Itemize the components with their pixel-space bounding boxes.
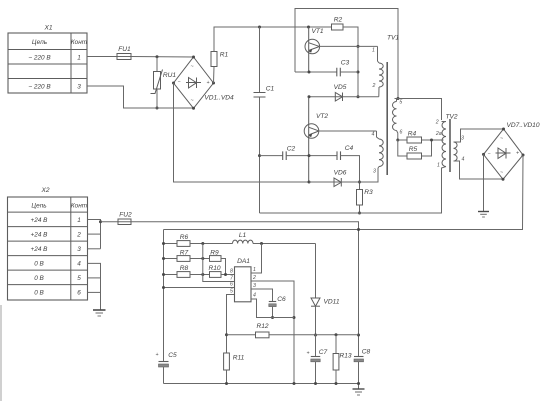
svg-text:2: 2: [76, 232, 81, 239]
svg-text:VD6: VD6: [334, 170, 347, 177]
svg-text:L1: L1: [239, 232, 247, 239]
junction VT1 base: [307, 26, 310, 29]
svg-text:R10: R10: [208, 265, 220, 272]
ground below C8: [353, 389, 365, 395]
svg-text:VD1..VD4: VD1..VD4: [204, 95, 234, 102]
resistor R12: [256, 323, 359, 338]
capacitor C7: [306, 335, 327, 384]
svg-text:2: 2: [252, 275, 256, 281]
junction RU1 bottom: [156, 107, 159, 110]
svg-text:X2: X2: [40, 187, 49, 194]
svg-text:3: 3: [77, 84, 81, 91]
svg-text:+: +: [206, 80, 209, 86]
divider chain wire to DA1 pin7: [203, 244, 235, 282]
transformer TV2: [435, 114, 504, 180]
capacitor C6: [269, 296, 286, 318]
connector X2: [8, 187, 88, 300]
svg-text:R3: R3: [364, 189, 373, 196]
resistor R7: [164, 250, 210, 262]
diode VD5: [309, 84, 379, 101]
left bus / box edge with C5: [163, 230, 165, 362]
negative rail: [260, 170, 442, 213]
varistor RU1: [151, 57, 177, 108]
svg-text:6: 6: [400, 130, 403, 136]
capacitor C2: [260, 146, 338, 161]
svg-text:C1: C1: [266, 86, 275, 93]
feedback rail with R12: [227, 334, 256, 336]
TV1 winding 4-3: [377, 131, 380, 139]
svg-text:VD7..VD10: VD7..VD10: [507, 122, 540, 129]
svg-text:+: +: [516, 151, 519, 157]
wire DA1 pin3 to C6: [251, 289, 273, 302]
svg-text:C5: C5: [168, 352, 177, 359]
TV1 winding 5-6: [393, 102, 397, 131]
svg-text:1: 1: [77, 55, 81, 62]
wire X1.1 to FU1: [87, 56, 131, 58]
capacitor C4: [337, 145, 360, 190]
svg-text:RU1: RU1: [163, 72, 177, 79]
resistor R2: [332, 17, 344, 31]
svg-text:~ 220 В: ~ 220 В: [28, 55, 51, 62]
svg-text:4: 4: [77, 261, 81, 268]
capacitor C5: [155, 352, 177, 384]
box wire over VT1 cell: [295, 9, 398, 99]
junction TV1 pin6 node: [396, 139, 399, 142]
svg-text:0 В: 0 В: [34, 290, 44, 297]
bridge rectifier VD1..VD4: [174, 57, 234, 108]
svg-text:R1: R1: [220, 52, 229, 59]
bridge rectifier VD7..VD10: [484, 122, 540, 179]
svg-text:Цепь: Цепь: [31, 202, 46, 209]
wire bridge plus to +24 rail: [164, 155, 524, 230]
capacitor C3: [295, 60, 358, 77]
IC DA1: [230, 258, 256, 302]
svg-text:Конт: Конт: [71, 39, 88, 46]
svg-text:3: 3: [77, 246, 81, 253]
resistor R5: [398, 140, 432, 159]
svg-text:R13: R13: [339, 353, 351, 360]
svg-text:6: 6: [230, 282, 233, 288]
wire FU1 to bridge top node: [131, 56, 194, 59]
resistor R6: [164, 234, 233, 246]
svg-text:1: 1: [372, 48, 375, 54]
svg-text:~: ~: [190, 98, 193, 104]
svg-text:3: 3: [373, 169, 376, 175]
transformer TV1: [372, 35, 403, 176]
svg-text:−: −: [487, 152, 490, 158]
svg-text:X1: X1: [43, 25, 52, 32]
svg-text:C4: C4: [345, 145, 354, 152]
wire X1.3 down to AC rail: [87, 86, 194, 108]
svg-text:R5: R5: [409, 146, 418, 153]
svg-text:R11: R11: [233, 355, 245, 362]
wire bus to DA1 pin6: [164, 287, 235, 289]
svg-text:3: 3: [461, 136, 464, 142]
bottom rail: [164, 383, 359, 385]
svg-text:5: 5: [230, 289, 233, 295]
svg-text:1: 1: [253, 267, 256, 273]
svg-text:+: +: [155, 352, 158, 358]
svg-text:R6: R6: [180, 234, 189, 241]
wire R2 to collector row: [343, 27, 358, 97]
wire bridge plus up through R1: [213, 67, 216, 84]
svg-text:+24 В: +24 В: [31, 217, 49, 224]
svg-text:+24 В: +24 В: [31, 232, 49, 239]
svg-text:C6: C6: [277, 296, 286, 303]
X2 pins 1-3 bus: [88, 220, 101, 249]
resistor R4: [398, 131, 444, 144]
svg-text:R2: R2: [334, 17, 343, 24]
wire FU2 to filter node: [131, 222, 359, 357]
junction at RU1 top: [156, 55, 159, 58]
wire VT2 collector row: [319, 130, 377, 132]
svg-text:5: 5: [77, 275, 81, 282]
svg-text:DA1: DA1: [237, 258, 250, 265]
svg-text:C7: C7: [319, 349, 328, 356]
diode VD11: [311, 244, 340, 336]
svg-text:2a: 2a: [435, 131, 442, 137]
wire DA1 pin5 down to R11: [227, 295, 235, 354]
svg-text:FU1: FU1: [118, 46, 131, 53]
wire X2 bus to FU2: [101, 221, 132, 223]
svg-text:6: 6: [77, 290, 81, 297]
TV2 secondary winding 3-4: [454, 142, 458, 161]
diode VD6: [334, 170, 347, 187]
svg-text:4: 4: [372, 132, 375, 138]
wire R1 to top rail: [214, 27, 332, 52]
fuse FU2: [118, 212, 132, 225]
svg-text:~: ~: [500, 170, 503, 176]
svg-text:R4: R4: [408, 131, 417, 138]
resistor R1: [211, 52, 229, 67]
svg-text:+24 В: +24 В: [31, 246, 49, 253]
svg-text:+: +: [306, 351, 309, 357]
wire DA1 pin2 down to common: [251, 281, 294, 384]
svg-text:VD11: VD11: [323, 299, 339, 306]
resistor R8: [164, 265, 210, 277]
svg-text:Конт: Конт: [71, 202, 88, 209]
svg-text:VD5: VD5: [334, 84, 347, 91]
page scan border: [0, 305, 2, 401]
svg-text:~ 220 В: ~ 220 В: [28, 84, 51, 91]
wire base row right to TV1 pin3 riser: [309, 168, 378, 182]
X2 pins 4-6 bus: [88, 263, 101, 309]
capacitor C1: [254, 27, 275, 213]
svg-text:~: ~: [500, 136, 503, 142]
junction TV1 pin5 node: [397, 97, 400, 100]
svg-text:C3: C3: [341, 60, 350, 67]
capacitor C8: [354, 349, 371, 390]
svg-text:1: 1: [437, 163, 440, 169]
svg-text:4: 4: [462, 157, 465, 163]
transistor VT1: [305, 27, 324, 72]
resistor R3: [357, 189, 374, 213]
wire bridge minus down to base row: [174, 83, 310, 182]
inductor L1: [233, 232, 316, 244]
transistor VT2: [304, 97, 328, 182]
ground below X2: [93, 310, 106, 316]
svg-text:Цепь: Цепь: [32, 39, 47, 46]
svg-text:R8: R8: [180, 265, 189, 272]
resistor R11: [224, 353, 245, 384]
junction R4/R5 to TV2 tap: [430, 139, 433, 142]
svg-text:−: −: [177, 80, 180, 86]
resistor R10: [208, 265, 234, 277]
svg-text:R12: R12: [256, 323, 268, 330]
resistor R13: [333, 335, 352, 384]
svg-text:VT1: VT1: [311, 28, 323, 35]
resistor R9: [210, 250, 226, 275]
svg-text:0 В: 0 В: [34, 261, 44, 268]
TV1 core: [386, 62, 388, 175]
svg-text:~: ~: [190, 64, 193, 70]
TV1 winding 1-2: [378, 46, 380, 63]
svg-text:3: 3: [253, 283, 256, 289]
wire VT1 collector row: [319, 45, 378, 47]
svg-text:1: 1: [77, 217, 81, 224]
connector X1: [8, 25, 88, 94]
svg-text:C2: C2: [287, 146, 296, 153]
ground below VD7..VD10: [478, 154, 489, 217]
wire DA1 pin4 to local rail: [251, 299, 294, 318]
wire DA1 pin1 up to L1 node: [251, 244, 262, 274]
svg-text:5: 5: [399, 100, 402, 106]
junction C1 top: [258, 26, 261, 29]
svg-text:FU2: FU2: [119, 212, 132, 219]
svg-text:0 В: 0 В: [34, 275, 44, 282]
TV2 core: [449, 119, 451, 172]
svg-text:C8: C8: [362, 349, 371, 356]
svg-text:TV2: TV2: [445, 114, 457, 121]
fuse FU1: [117, 46, 131, 60]
junction C2 row: [258, 154, 261, 157]
svg-text:4: 4: [253, 293, 256, 299]
svg-text:2: 2: [372, 83, 376, 89]
svg-text:TV1: TV1: [387, 35, 399, 42]
svg-text:8: 8: [230, 269, 233, 275]
wire TV1 pin5 to TV2 pin2: [395, 99, 442, 121]
svg-text:2: 2: [435, 120, 439, 126]
TV2 primary winding 2-2a-1: [442, 122, 446, 167]
svg-text:VT2: VT2: [316, 113, 328, 120]
